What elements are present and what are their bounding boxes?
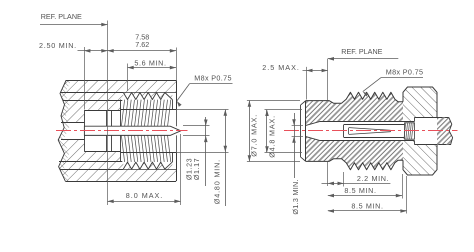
right connector: rear barrel with break edge (437, 117, 453, 144)
left connector: thread major line across teeth (123, 92, 176, 94)
dimension dia 7.0 MAX. (247, 100, 300, 102)
left connector: break-edge sliver hatch (58, 81, 71, 182)
svg-text:Ø4.80 MIN.: Ø4.80 MIN. (213, 159, 222, 204)
left connector: internal thread teeth (top) (123, 93, 172, 100)
left connector: shell outline horizontals (66, 80, 176, 82)
dimension dia 1.3 MIN. (292, 125, 303, 127)
svg-text:M8x P0.75: M8x P0.75 (386, 67, 424, 76)
right connector: flange front edge (305, 101, 307, 162)
svg-text:7.62: 7.62 (135, 40, 149, 49)
right connector: outer profile outline (top) (306, 92, 403, 103)
svg-text:8.5 MIN.: 8.5 MIN. (344, 186, 376, 195)
svg-text:Ø7.0 MAX.: Ø7.0 MAX. (250, 114, 259, 157)
svg-text:2.2 MIN.: 2.2 MIN. (357, 174, 389, 183)
right connector: bore walls (320, 121, 415, 123)
right drawing: red centerline (284, 130, 458, 132)
left connector: break edge line (58, 81, 66, 182)
svg-text:Ø4.8 MAX.: Ø4.8 MAX. (268, 115, 277, 158)
right connector: outer profile outline (bottom) (306, 159, 403, 170)
svg-text:8.5 MIN.: 8.5 MIN. (351, 201, 383, 210)
left connector: internal thread teeth (bottom) (123, 162, 172, 169)
left connector: face edge seen inside bore (176, 110, 178, 127)
right connector: crimp sleeve hatched (405, 123, 415, 139)
right connector: contact slot taper (349, 128, 391, 131)
left connector: center pin with cone tip (84, 126, 180, 135)
svg-text:8.0 MAX.: 8.0 MAX. (126, 191, 164, 200)
svg-text:M8x P0.75: M8x P0.75 (194, 74, 232, 83)
left connector: white-out left of break edge (50, 78, 66, 183)
left connector: insulator block (84, 110, 86, 151)
right connector: nut block outline (top) (403, 87, 437, 117)
svg-text:Ø1.3 MIN.: Ø1.3 MIN. (291, 179, 300, 214)
left connector: coupling-nut shell section, hatched bands (57, 81, 176, 93)
right connector: main body section (top half) hatched (306, 92, 403, 125)
dimension pin diameter 1.23/1.17 (183, 125, 210, 127)
left connector: visible thread flank lines inside nut (bottom) (121, 136, 170, 162)
svg-text:2.5 MAX.: 2.5 MAX. (262, 63, 300, 72)
left connector: front face and thread relief edges (176, 81, 178, 110)
svg-text:5.6 MIN.: 5.6 MIN. (134, 58, 166, 67)
dimension dia 4.8 MAX. (265, 109, 303, 111)
right connector: main body section (bottom half) hatched (306, 137, 403, 170)
right connector: rear nut block hatched (bottom) (403, 141, 437, 175)
right connector: rear nut block hatched (top) (403, 87, 437, 121)
left connector: visible thread flank lines inside nut (top) (121, 100, 170, 126)
svg-text:2.50 MIN.: 2.50 MIN. (39, 41, 77, 50)
right connector: nut block outline (bottom) (403, 145, 437, 175)
dimension 4.80 MIN. (nut bore) (176, 109, 229, 111)
right connector: front nose ring with chamfers (300, 105, 302, 157)
right connector: female contact tube (344, 124, 405, 126)
left connector: nut bore (dia 4.80) lines (121, 109, 176, 111)
svg-text:Ø1.17: Ø1.17 (192, 158, 201, 180)
left drawing: red centerline (56, 130, 188, 132)
right connector: bore entry funnel (306, 121, 320, 125)
svg-text:REF. PLANE: REF. PLANE (341, 47, 382, 56)
svg-text:REF. PLANE: REF. PLANE (41, 12, 82, 21)
